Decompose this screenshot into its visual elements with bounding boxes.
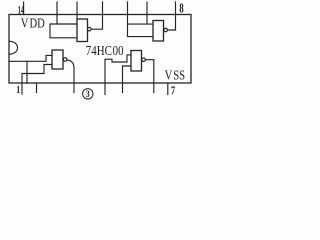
wire: U1D output hooks down to pin 3: [67, 60, 74, 93]
label 14: [18, 3, 24, 17]
svg-text:7: 7: [171, 85, 175, 98]
svg-text:3: 3: [86, 88, 90, 99]
pin 13 wire: stub into gate U1A input A: [57, 2, 77, 24]
wire: U1A input B tie: [50, 24, 77, 38]
IC package outline U1 74HC00: [9, 15, 191, 84]
svg-text:74HC00: 74HC00: [86, 43, 124, 59]
nand U1A body: [77, 19, 88, 42]
nand U1D bubble: [63, 58, 67, 62]
label VDD: [21, 15, 45, 31]
pin 1 wire: up inside to U1D input B: [22, 65, 52, 95]
label 8: [179, 2, 184, 16]
nand U1B body: [153, 21, 164, 42]
label VSS: [165, 67, 186, 83]
notch (pin-1 index) on left edge: [10, 41, 18, 54]
nand U1B bubble: [164, 28, 168, 32]
pin 14 stub: [23, 2, 25, 15]
label 7: [171, 85, 175, 98]
svg-text:VSS: VSS: [165, 67, 186, 83]
wire: left border to U1D input A: [10, 55, 53, 61]
pin 7 stub: [167, 83, 169, 95]
wire: U1C output down to pin 6: [145, 60, 153, 93]
pin 2 stub: [36, 83, 38, 93]
pin 5 wire: stub up to U1C input B: [123, 66, 132, 93]
nand U1D body: [52, 50, 63, 69]
circled figure label 3: ring: [83, 89, 93, 99]
pin 10 wire: stub down to U1B input B: [128, 2, 154, 37]
nand U1A bubble: [88, 27, 92, 31]
pin 9 wire: stub into U1B input A: [147, 2, 153, 24]
svg-text:VDD: VDD: [21, 15, 45, 31]
nand U1C bubble: [142, 58, 146, 62]
wire: U1C input A stepped over to pin 4: [105, 55, 131, 95]
wire: drop to bottom border: [26, 61, 28, 83]
svg-text:1: 1: [16, 85, 20, 96]
nand U1C body: [131, 51, 142, 72]
label digit 3: [86, 88, 90, 99]
wire: pin10 riser branch to U1B input A: [128, 23, 148, 25]
label 1: [16, 85, 20, 96]
pin 12 stub: [76, 2, 78, 19]
label 74HC00: [86, 43, 124, 59]
wire: U1A output up to pin 11: [91, 2, 102, 29]
svg-text:8: 8: [179, 2, 184, 16]
wire: U1B output to pin 8: [167, 2, 175, 30]
